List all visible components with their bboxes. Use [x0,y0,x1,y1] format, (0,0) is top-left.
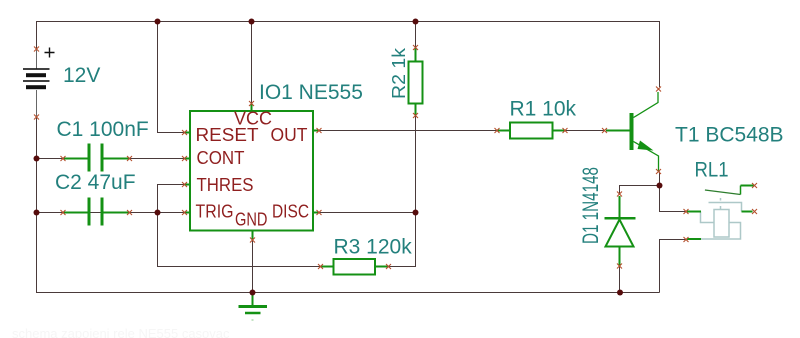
svg-text:GND: GND [235,209,268,230]
svg-text:12V: 12V [63,64,100,87]
svg-text:R3 120k: R3 120k [334,236,413,259]
svg-text:RESET: RESET [196,124,259,145]
svg-text:CONT: CONT [197,147,245,168]
svg-text:TRIG: TRIG [196,201,234,222]
svg-text:C1 100nF: C1 100nF [57,118,149,141]
svg-text:schema zapojeni rele NE555 cas: schema zapojeni rele NE555 casovac [12,326,230,338]
svg-text:OUT: OUT [271,124,308,145]
svg-text:IO1 NE555: IO1 NE555 [259,81,363,104]
svg-text:D1 1N4148: D1 1N4148 [578,167,603,244]
svg-text:R1 10k: R1 10k [510,98,577,121]
svg-text:R2 1k: R2 1k [389,47,409,99]
svg-text:DISC: DISC [272,201,309,222]
svg-text:T1 BC548B: T1 BC548B [675,124,784,147]
svg-text:RL1: RL1 [695,159,729,182]
svg-text:C2 47uF: C2 47uF [55,171,136,194]
svg-text:THRES: THRES [197,174,254,195]
